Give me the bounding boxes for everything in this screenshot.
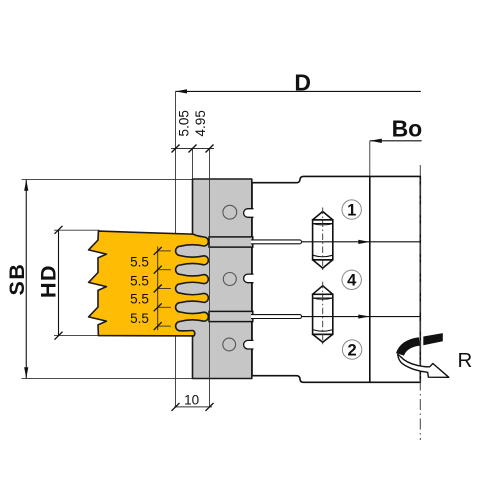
5.5 pitch tick mark 5 — [154, 322, 162, 330]
5.5 pitch tick mark 4 — [154, 303, 162, 311]
screw S2 axis centerline — [322, 282, 324, 346]
5.5 pitch extension segment 3 — [158, 288, 171, 290]
wedge strip 1 — [209, 237, 253, 247]
slit 1 (saw kerf) — [251, 240, 302, 244]
dimension Bo extension line — [369, 141, 371, 176]
dimension HD tick marks — [55, 226, 63, 234]
svg-text:5.5: 5.5 — [130, 292, 149, 307]
screw S2 top cone point — [313, 286, 333, 295]
extension line x=209.5 (over gray) — [209, 149, 211, 408]
svg-text:5.05: 5.05 — [176, 110, 191, 136]
screw S2 bottom cone point — [313, 334, 333, 342]
notch 1 — [244, 209, 254, 218]
dimension SB line — [25, 180, 27, 378]
screw S1 top cone point — [313, 212, 333, 220]
item balloon circle 1 — [342, 200, 361, 219]
screw S1 top chamfer line — [313, 223, 333, 225]
svg-text:5.5: 5.5 — [130, 255, 149, 270]
hole in holder block 1 — [223, 205, 237, 219]
tick marks 5.05/4.95 — [172, 145, 180, 153]
dimension D arrowhead — [176, 89, 188, 93]
dimension HD line — [58, 230, 60, 336]
svg-text:5.5: 5.5 — [130, 273, 149, 288]
screw S1 bottom cone point — [313, 260, 333, 268]
dimension SB bottom extension line — [22, 378, 193, 380]
5.5 pitch tick mark 2 — [154, 266, 162, 274]
dimension HD top extension line — [54, 229, 100, 231]
centerline (dash-dot axis) — [419, 165, 421, 440]
svg-text:4: 4 — [347, 272, 357, 290]
svg-text:R: R — [457, 349, 472, 372]
screw S1 axis centerline — [322, 208, 324, 272]
dimension D line — [176, 90, 421, 92]
gray holder mass with comb fingers — [176, 179, 252, 379]
slit 2 continuation line — [302, 316, 421, 318]
svg-text:5.5: 5.5 — [130, 311, 149, 326]
notch 2 — [244, 274, 254, 283]
5.5 pitch extension segment 4 — [158, 306, 171, 308]
svg-text:4.95: 4.95 — [193, 110, 208, 136]
slit 2 arrowhead at bore wall — [358, 314, 370, 318]
extension line x=192.5 — [192, 149, 194, 181]
5.5 pitch tick mark 1 — [154, 247, 162, 255]
svg-text:10: 10 — [184, 392, 199, 407]
svg-text:D: D — [294, 70, 311, 96]
rotation arrow R: white swoosh arrow — [398, 354, 449, 377]
5.5 pitch extension segment 2 — [158, 269, 171, 271]
screw S2 bottom cup arc — [313, 330, 333, 332]
5.5 pitch tick mark 3 — [154, 285, 162, 293]
screw S1 bottom cup arc — [313, 255, 333, 257]
rotation arrow R: black ribbon left bend — [400, 341, 419, 354]
hole in holder block 2 — [223, 273, 236, 286]
item balloon circle 2 — [342, 340, 361, 359]
cutter head body outline — [252, 176, 420, 382]
dimension SB top extension line — [22, 178, 193, 180]
hole in holder block 3 — [223, 338, 236, 351]
item balloon circle 4 — [342, 270, 361, 289]
screw S2 body — [313, 294, 333, 334]
svg-text:2: 2 — [348, 342, 357, 360]
bore wall line Bo — [369, 176, 371, 382]
screw S2 top chamfer arc — [313, 298, 333, 299]
dimension 10 tick marks — [172, 403, 180, 411]
dimension 10 line — [174, 406, 212, 408]
dimension 5.5 stack line — [157, 247, 159, 331]
svg-text:1: 1 — [347, 202, 356, 220]
svg-text:SB: SB — [5, 263, 29, 296]
slit 2 — [251, 315, 302, 319]
screw S1 body — [313, 220, 333, 260]
slit 1 arrowhead at bore wall — [358, 240, 370, 244]
screw S1 top chamfer arc — [313, 224, 333, 225]
dimension SB arrowheads — [24, 180, 28, 191]
wedge strip 2 — [209, 311, 253, 321]
extension line x=175.5 — [175, 91, 177, 407]
svg-text:Bo: Bo — [392, 116, 423, 142]
dimension HD bottom extension line — [54, 334, 98, 336]
dimension 5.05/4.95 line — [171, 148, 214, 150]
svg-text:HD: HD — [37, 264, 61, 298]
dimension Bo arrowhead — [370, 139, 382, 143]
notch 3 — [244, 340, 254, 349]
5.5 pitch extension segment 1 — [158, 250, 171, 252]
slit 1 continuation line — [302, 241, 421, 243]
dimension Bo line — [370, 140, 422, 142]
profile knife (yellow) — [89, 231, 209, 336]
rotation arrow R: black ribbon right piece — [423, 333, 443, 345]
5.5 pitch extension segment 5 — [158, 325, 171, 327]
screw S2 top chamfer line — [313, 297, 333, 299]
